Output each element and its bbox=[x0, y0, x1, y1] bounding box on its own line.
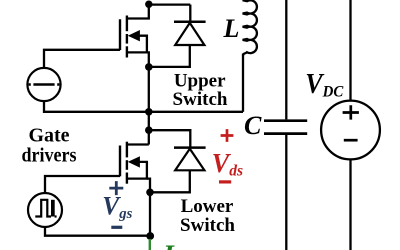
node top drain junction bbox=[145, 0, 152, 7]
wire gate driver1 return to node A bbox=[44, 101, 149, 112]
svg-text:Gate: Gate bbox=[28, 125, 69, 147]
node switch node A bbox=[145, 108, 153, 116]
label plus red bbox=[221, 129, 234, 142]
wire D2 anode to source node bbox=[150, 170, 190, 192]
label VDC bbox=[305, 68, 344, 100]
svg-text:drivers: drivers bbox=[22, 145, 77, 167]
wire main column bbox=[148, 67, 150, 145]
gate driver source G2 pulse bbox=[28, 193, 62, 227]
wire gate driver2 return to bottom node bbox=[45, 227, 150, 236]
label minus red bbox=[219, 180, 231, 183]
wire node B to diode D2 bbox=[149, 130, 191, 147]
svg-text:Switch: Switch bbox=[180, 215, 235, 236]
node lower source junction bbox=[146, 189, 154, 197]
svg-text:L: L bbox=[223, 14, 240, 43]
label plus blue bbox=[109, 181, 123, 195]
svg-text:C: C bbox=[244, 111, 262, 140]
transistor Q1 upper MOSFET bbox=[120, 16, 147, 58]
svg-text:Switch: Switch bbox=[173, 89, 228, 110]
node upper source junction bbox=[145, 63, 153, 71]
diode D1 bbox=[174, 22, 206, 45]
svg-text:I: I bbox=[162, 241, 175, 250]
wire top rail bbox=[149, 3, 191, 5]
wire lower source column bbox=[149, 192, 151, 236]
label Vgs (blue) bbox=[102, 191, 132, 222]
inductor L coil bbox=[243, 0, 257, 56]
label minus blue bbox=[111, 226, 122, 229]
gate driver source G1 bbox=[27, 68, 60, 101]
wire capacitor branch bottom bbox=[285, 135, 287, 250]
wire D1 anode to source node bbox=[149, 45, 190, 67]
wire green current path bbox=[149, 239, 151, 250]
wire diode D1 cathode drop bbox=[189, 5, 191, 22]
wire G2 to lower gate bbox=[45, 176, 120, 193]
capacitor C bbox=[264, 121, 307, 134]
wire inductor to node A bbox=[242, 54, 244, 112]
wire lower source to node bbox=[147, 179, 150, 193]
wire capacitor branch top bbox=[285, 0, 287, 119]
label Vds (red) bbox=[212, 147, 243, 179]
wire G1 to upper gate bbox=[44, 50, 120, 68]
diode D2 bbox=[174, 148, 206, 171]
wire node A to inductor bbox=[149, 111, 243, 113]
wire upper source to node bbox=[147, 52, 149, 67]
wire VDC branch top bbox=[349, 0, 351, 101]
wire VDC branch bottom bbox=[349, 159, 351, 250]
voltage source VDC bbox=[321, 101, 380, 160]
wire upper drain bbox=[127, 4, 149, 19]
node bottom junction bbox=[146, 232, 154, 240]
svg-text:Lower: Lower bbox=[181, 196, 234, 217]
node lower drain B bbox=[145, 126, 153, 134]
transistor Q2 lower MOSFET bbox=[120, 142, 149, 184]
